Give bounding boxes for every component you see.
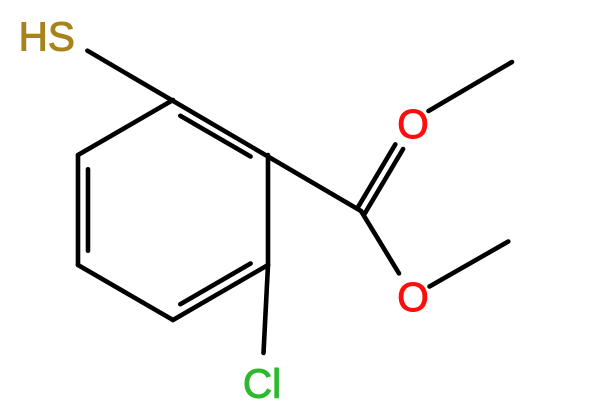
wire: ring bond TR-BR right side (266, 155, 271, 265)
svg-text:HS: HS (19, 14, 75, 60)
wire: ring bond TL-T (78, 100, 173, 155)
wire: ring bond BL-B (78, 265, 173, 320)
wire: bond lower O to methyl (430, 242, 509, 287)
wire: bond ring to Cl (264, 265, 269, 353)
wire: ring bond B-BR (173, 265, 268, 320)
wire: ring inner aromatic line bottom-right (180, 264, 250, 305)
wire: ring bond TL-BL left side (76, 155, 81, 265)
wire: bond C to lower O (361, 211, 399, 273)
wire: bond upper O to methyl (429, 62, 513, 111)
wire: C=O double bond line b (357, 144, 395, 208)
wire: bond S to carbonyl C (co-linear run S-C1-C2-Cc) (87, 51, 361, 211)
svg-text:Cl: Cl (243, 361, 281, 407)
svg-text:O: O (397, 101, 429, 147)
wire: C=O double bond line a (365, 149, 403, 213)
svg-text:O: O (397, 274, 429, 320)
wire: ring inner aromatic line left (86, 169, 91, 250)
wire: ring inner aromatic line top-right (180, 116, 250, 157)
